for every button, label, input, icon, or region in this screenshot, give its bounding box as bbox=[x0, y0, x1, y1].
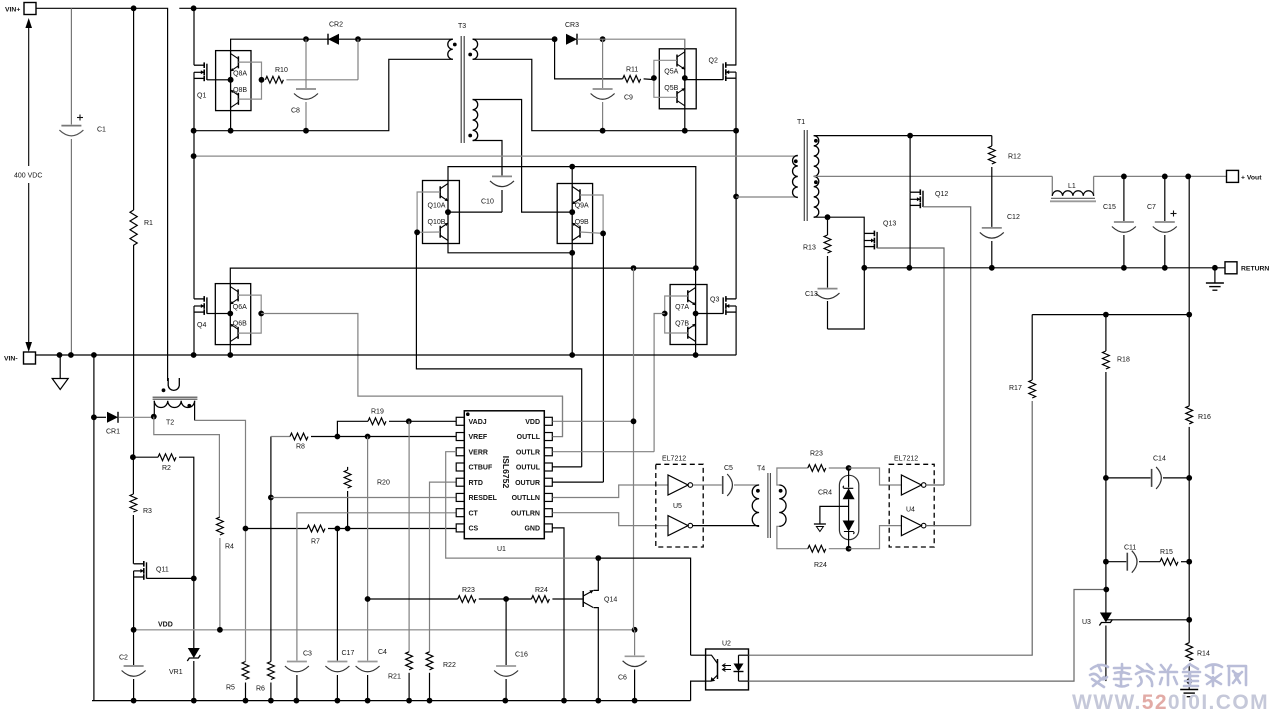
svg-text:R15: R15 bbox=[1160, 549, 1173, 556]
transistor Q2 (MOSFET) bbox=[709, 58, 737, 197]
zener diode VR1 bbox=[169, 578, 200, 700]
400 VDC dimension arrow bbox=[14, 18, 42, 352]
resistor R1 bbox=[130, 8, 153, 457]
svg-text:R10: R10 bbox=[275, 67, 288, 74]
optocoupler U2 bbox=[691, 641, 749, 701]
svg-text:R14: R14 bbox=[1197, 651, 1210, 658]
wire U5 lower output to T4 bbox=[693, 525, 760, 527]
svg-text:R24: R24 bbox=[814, 562, 827, 569]
svg-text:VADJ: VADJ bbox=[469, 419, 487, 426]
IC U1 ISL6752 bbox=[456, 411, 552, 553]
diode CR3 bbox=[565, 22, 579, 45]
wire VIN+ top rail left segment bbox=[36, 8, 168, 381]
svg-text:+ Vout: + Vout bbox=[1241, 174, 1262, 181]
node R21 tap on VADJ wire bbox=[406, 418, 412, 424]
wire T3 secondary-top to CR3 node bbox=[473, 38, 555, 40]
wire Q10 base line down to OUTUL route bbox=[416, 232, 581, 467]
svg-text:CS: CS bbox=[469, 526, 479, 533]
wire OUTUL pin route bbox=[552, 466, 581, 468]
wire CR4 top node to U4 input bbox=[849, 468, 902, 485]
resistor R19 and VADJ wire bbox=[337, 409, 456, 437]
wire Q1 bootstrap rail (bottom of Q8/C8) bbox=[194, 59, 453, 130]
node Q12 drain tap bbox=[907, 133, 913, 139]
IC U5 driver EL7212 (dashed) bbox=[656, 456, 703, 548]
wire left midpoint bus to T1 primary top bbox=[194, 155, 798, 157]
watermark Chinese characters bbox=[1090, 664, 1246, 687]
wire U2 LED cathode to U3 node bbox=[749, 590, 1107, 682]
wire Q14 emitter node to U2 bbox=[598, 558, 690, 655]
svg-text:L1: L1 bbox=[1068, 183, 1076, 190]
ground symbol near VIN- bbox=[52, 355, 68, 390]
node R23/R24/C16 junction bbox=[503, 596, 509, 602]
svg-text:CTBUF: CTBUF bbox=[469, 465, 493, 472]
transistor Q3 (MOSFET) bbox=[710, 197, 736, 356]
wire U3 cathode to R14 line bbox=[1106, 619, 1189, 621]
transistor pair Q9A/Q9B block bbox=[557, 184, 606, 244]
diode CR2 bbox=[328, 22, 343, 45]
capacitor C16 bbox=[494, 599, 528, 701]
node CR1 feed bbox=[93, 355, 95, 701]
svg-text:C9: C9 bbox=[624, 95, 633, 102]
svg-text:R11: R11 bbox=[626, 67, 638, 74]
transformer T3 bbox=[448, 23, 478, 143]
inductor L1 bbox=[1050, 183, 1096, 201]
svg-text:OUTUL: OUTUL bbox=[516, 465, 541, 472]
wire Q6 base line to OUTLL route bbox=[261, 314, 562, 437]
capacitor C14 bbox=[1106, 456, 1189, 489]
wire T2 right to R5 chain bbox=[195, 420, 246, 661]
wire CR4 bottom node to U4 input bbox=[849, 526, 902, 549]
wire T3 secondary-top lower terminal to Q5 rail bbox=[473, 59, 736, 130]
node bus268 VDD tap bbox=[631, 265, 637, 271]
transistor pair Q7A/Q7B block bbox=[662, 285, 707, 345]
svg-text:C7: C7 bbox=[1147, 204, 1156, 211]
svg-text:OUTLLN: OUTLLN bbox=[512, 495, 540, 502]
svg-text:R12: R12 bbox=[1008, 154, 1021, 161]
svg-text:Q6B: Q6B bbox=[233, 321, 247, 328]
capacitor C17 bbox=[325, 529, 354, 701]
diode CR1 bbox=[94, 412, 154, 436]
wire R18 line down to U3 bbox=[1105, 478, 1107, 613]
resistor R12 bbox=[988, 136, 1021, 227]
svg-text:R1: R1 bbox=[144, 220, 153, 227]
dual zener CR4 bbox=[818, 468, 859, 549]
wire +Vout rail from T1 center tap bbox=[814, 176, 1227, 196]
svg-text:C5: C5 bbox=[724, 465, 733, 472]
svg-text:VERR: VERR bbox=[469, 449, 488, 456]
svg-text:R3: R3 bbox=[143, 508, 152, 515]
svg-text:Q9B: Q9B bbox=[575, 219, 589, 226]
capacitor C3 and CT wire bbox=[285, 513, 456, 701]
wire U4 bottom output to Q12 gate line bbox=[926, 525, 971, 527]
wire OUTUR pin route bbox=[552, 481, 603, 483]
svg-text:C6: C6 bbox=[618, 675, 627, 682]
svg-text:T3: T3 bbox=[458, 23, 466, 30]
svg-text:R16: R16 bbox=[1198, 414, 1211, 421]
svg-text:C8: C8 bbox=[291, 108, 300, 115]
resistor R14 bbox=[1186, 643, 1210, 681]
wire Q5 emitter to rail bbox=[684, 109, 686, 131]
resistor R10 bbox=[265, 39, 358, 83]
wire Q8 collector rail to CR2/T3 (node A) bbox=[231, 39, 453, 50]
svg-text:CR2: CR2 bbox=[329, 22, 343, 29]
svg-text:R24: R24 bbox=[535, 587, 548, 594]
svg-text:EL7212: EL7212 bbox=[894, 456, 918, 463]
node U3 top bbox=[1103, 587, 1109, 593]
svg-text:VDD: VDD bbox=[525, 419, 540, 426]
svg-text:C4: C4 bbox=[378, 649, 387, 656]
node R7 tap on R5 line bbox=[243, 526, 249, 532]
IC U4 driver EL7212 (dashed) bbox=[889, 456, 934, 548]
wire Q9 emitter down to VIN- bus bbox=[571, 244, 573, 356]
wire Q10 emitter jog to Q9 emitter line bbox=[448, 244, 572, 253]
svg-text:RTD: RTD bbox=[469, 480, 483, 487]
wire Q8 emitter to rail bbox=[230, 111, 232, 131]
svg-text:R19: R19 bbox=[371, 409, 384, 416]
svg-text:R22: R22 bbox=[443, 662, 456, 669]
node Q9 collector tap bbox=[569, 164, 575, 170]
svg-text:C16: C16 bbox=[515, 652, 528, 659]
svg-text:C2: C2 bbox=[119, 655, 128, 662]
svg-text:Q1: Q1 bbox=[197, 93, 206, 100]
wire Q9 base line down to OUTUR pin bbox=[602, 233, 604, 482]
terminal VIN- bbox=[4, 352, 36, 364]
wire Q10 collector rail bbox=[448, 167, 696, 269]
wire Q7 base line to OUTLR pin route bbox=[654, 314, 665, 452]
resistor R24 (driver side) bbox=[808, 545, 849, 569]
svg-text:C15: C15 bbox=[1103, 204, 1116, 211]
svg-text:Q7A: Q7A bbox=[675, 304, 689, 311]
wire Q7 collector from bus bbox=[695, 268, 697, 284]
svg-text:U4: U4 bbox=[906, 507, 915, 514]
watermark url text bbox=[1072, 691, 1269, 712]
wire U2 LED anode to R17 bbox=[749, 408, 1033, 655]
node Q14 emitter junction bbox=[595, 555, 601, 561]
svg-text:C12: C12 bbox=[1007, 214, 1020, 221]
svg-text:R23: R23 bbox=[810, 451, 823, 458]
svg-text:Q4: Q4 bbox=[197, 322, 206, 329]
capacitor C15 bbox=[1103, 176, 1136, 267]
capacitor C8 bbox=[291, 39, 318, 131]
transistor Q13 (MOSFET) bbox=[864, 221, 896, 268]
terminal VIN+ bbox=[5, 3, 36, 15]
capacitor C5 coupling bbox=[693, 465, 760, 496]
capacitor C11 bbox=[1106, 545, 1160, 573]
resistor R15 bbox=[1160, 549, 1189, 565]
wire T1 secondary bottom to Q13/R13 bbox=[814, 217, 865, 233]
transistor pair Q10A/Q10B block bbox=[414, 181, 459, 244]
resistor R2 bbox=[133, 454, 194, 579]
wire bottom ground rail bbox=[92, 700, 691, 702]
wire C10 bottom to Q10 output bbox=[448, 211, 502, 213]
transistor pair Q6A/Q6B block bbox=[215, 284, 264, 345]
wire U4 top output to Q13 gate line bbox=[926, 484, 944, 486]
resistor R20 bbox=[344, 467, 390, 529]
resistor R6 bbox=[256, 437, 274, 701]
node C8 top junction bbox=[303, 36, 309, 42]
transistor pair Q8A/Q8B block bbox=[216, 51, 265, 111]
node CR4 bottom bbox=[846, 546, 852, 552]
node CR3 anode junction bbox=[552, 36, 558, 42]
wire OUTLLN pin route to U5 bbox=[552, 485, 668, 498]
wire VDD pin to VDD net bbox=[552, 420, 633, 422]
resistor R11 bbox=[623, 67, 655, 83]
svg-text:R21: R21 bbox=[388, 674, 401, 681]
svg-text:Q11: Q11 bbox=[156, 567, 169, 574]
resistor R5 bbox=[226, 662, 249, 701]
wire RESDEL bbox=[271, 497, 456, 499]
svg-text:OUTLL: OUTLL bbox=[517, 434, 541, 441]
svg-text:ISL6752: ISL6752 bbox=[501, 456, 511, 489]
svg-text:C11: C11 bbox=[1124, 545, 1136, 552]
svg-text:VDD: VDD bbox=[158, 622, 173, 629]
wire Q7 emitter to VIN- bus bbox=[695, 345, 697, 356]
wire VIN+ top rail right segment to Q2 drain bbox=[179, 8, 736, 65]
resistor R18 bbox=[1103, 315, 1130, 478]
transistor Q14 (NPN) bbox=[583, 558, 617, 701]
capacitor C6 bbox=[618, 630, 647, 701]
wire T2 left to R4 chain bbox=[154, 417, 220, 517]
transistor Q12 (MOSFET) bbox=[910, 136, 948, 268]
svg-text:Q6A: Q6A bbox=[233, 304, 247, 311]
svg-text:Q13: Q13 bbox=[883, 221, 896, 228]
wire Q9 collector up to rail bbox=[571, 167, 573, 184]
svg-text:400 VDC: 400 VDC bbox=[14, 172, 42, 179]
svg-text:C1: C1 bbox=[97, 127, 106, 134]
ground tap of CR4 bbox=[814, 506, 849, 531]
svg-text:T1: T1 bbox=[797, 119, 805, 126]
wire Q7 output to Q3 gate bbox=[696, 313, 724, 315]
svg-text:RESDEL: RESDEL bbox=[469, 495, 498, 502]
wire midpoint to T1 primary bottom bbox=[736, 196, 798, 198]
resistor R3 bbox=[130, 457, 152, 564]
wire VERR pin route bbox=[446, 452, 599, 558]
svg-text:R4: R4 bbox=[225, 544, 234, 551]
capacitor C9 bbox=[591, 39, 633, 131]
svg-text:Q8B: Q8B bbox=[233, 87, 247, 94]
svg-text:Q12: Q12 bbox=[935, 191, 948, 198]
svg-text:Q7B: Q7B bbox=[675, 321, 689, 328]
svg-text:VR1: VR1 bbox=[169, 669, 183, 676]
wire Q12 gate from U4 driver bbox=[923, 207, 971, 526]
wire T1 secondary top to R12 node bbox=[814, 135, 992, 137]
wire Q5 collector from CR3 node bbox=[684, 39, 686, 49]
wire T3 aux winding top to Q9 node bbox=[473, 100, 573, 213]
resistor R8 bbox=[271, 433, 456, 450]
svg-text:C13: C13 bbox=[805, 291, 818, 298]
wire OUTLRN pin route to U5 bbox=[552, 513, 668, 526]
svg-text:CR4: CR4 bbox=[818, 490, 832, 497]
svg-text:VIN+: VIN+ bbox=[5, 7, 20, 14]
svg-text:VREF: VREF bbox=[469, 434, 488, 441]
svg-text:Q8A: Q8A bbox=[233, 70, 247, 77]
capacitor C2 bbox=[119, 630, 146, 701]
wire feedback top rail bbox=[1032, 314, 1189, 316]
wire T4 secondary bottom loop with R24 bbox=[777, 526, 808, 548]
resistor R24 bbox=[506, 587, 583, 602]
svg-text:R7: R7 bbox=[311, 539, 320, 546]
node R13 tap bbox=[825, 214, 831, 220]
svg-text:EL7212: EL7212 bbox=[662, 456, 686, 463]
wire OUTLL pin route bbox=[552, 396, 562, 437]
node VIN+ rail junctions bbox=[131, 5, 137, 11]
svg-text:GND: GND bbox=[524, 526, 540, 533]
svg-text:T2: T2 bbox=[166, 420, 174, 427]
svg-text:U1: U1 bbox=[497, 546, 506, 553]
wire CR3 to Q5 collector feed bbox=[577, 39, 685, 49]
svg-text:R20: R20 bbox=[377, 480, 390, 487]
svg-text:Q10A: Q10A bbox=[428, 203, 446, 210]
capacitor C7 (polarized) bbox=[1147, 176, 1177, 267]
svg-text:Q5A: Q5A bbox=[664, 69, 678, 76]
wire GND pin route bbox=[552, 528, 564, 701]
svg-text:Q2: Q2 bbox=[709, 58, 718, 65]
svg-text:C14: C14 bbox=[1153, 456, 1166, 463]
svg-text:U3: U3 bbox=[1082, 619, 1091, 626]
svg-text:OUTUR: OUTUR bbox=[515, 480, 540, 487]
resistor R21 bbox=[388, 421, 413, 700]
wire RETURN rail bbox=[864, 267, 1226, 269]
node C9 top junction bbox=[600, 36, 606, 42]
svg-text:R18: R18 bbox=[1117, 357, 1130, 364]
capacitor C1 bbox=[59, 8, 106, 355]
wire VDD rail bbox=[134, 622, 635, 630]
svg-text:Q5B: Q5B bbox=[664, 85, 678, 92]
wire T3 aux winding bottom to C10 bbox=[473, 141, 502, 171]
svg-text:RETURN: RETURN bbox=[1241, 266, 1269, 273]
svg-text:VIN-: VIN- bbox=[4, 356, 18, 363]
capacitor C13 bbox=[805, 268, 864, 329]
resistor R4 bbox=[217, 517, 235, 630]
capacitor C4 and VREF line bbox=[356, 437, 387, 701]
capacitor C12 bbox=[980, 214, 1020, 268]
transformer T1 bbox=[793, 119, 819, 221]
transistor Q1 (MOSFET) bbox=[194, 8, 216, 299]
resistor R13 bbox=[803, 217, 831, 287]
wire Q5 output to Q2 gate bbox=[685, 79, 723, 81]
svg-text:CT: CT bbox=[469, 510, 479, 517]
terminal RETURN bbox=[1225, 262, 1269, 274]
node right bridge midpoint bbox=[733, 194, 739, 200]
transistor Q4 (MOSFET) bbox=[194, 296, 215, 355]
svg-text:OUTLR: OUTLR bbox=[516, 449, 540, 456]
svg-text:U2: U2 bbox=[722, 641, 731, 648]
node RESDEL tap on R6 line bbox=[268, 495, 274, 501]
svg-text:U5: U5 bbox=[673, 503, 682, 510]
transistor Q11 (MOSFET) bbox=[134, 561, 194, 630]
resistor R23 bbox=[368, 587, 507, 602]
node T2 secondary left junction bbox=[151, 414, 157, 420]
svg-text:OUTLRN: OUTLRN bbox=[511, 510, 540, 517]
node Q11 gate / VR1 junction bbox=[191, 576, 197, 582]
svg-text:R6: R6 bbox=[256, 686, 265, 693]
node CR4 top bbox=[846, 465, 852, 471]
svg-text:R5: R5 bbox=[226, 685, 235, 692]
svg-text:R8: R8 bbox=[296, 444, 305, 451]
svg-text:Q14: Q14 bbox=[604, 597, 617, 604]
svg-text:C3: C3 bbox=[303, 651, 312, 658]
transformer T4 bbox=[752, 466, 786, 539]
svg-text:CR3: CR3 bbox=[565, 22, 579, 29]
wire T4 secondary top loop with R23 bbox=[777, 468, 808, 485]
resistor R17 bbox=[1009, 315, 1036, 408]
svg-text:C10: C10 bbox=[481, 199, 494, 206]
wire Q1 gate to Q8 output node bbox=[216, 79, 231, 81]
node VREF junctions bbox=[335, 434, 341, 440]
resistor R16 bbox=[1186, 176, 1211, 478]
svg-text:R17: R17 bbox=[1009, 385, 1022, 392]
ground symbol under R14 bbox=[1180, 681, 1198, 697]
wire VIN- bus bbox=[36, 354, 737, 356]
svg-text:Q9A: Q9A bbox=[575, 203, 589, 210]
transistor pair Q5A/Q5B block bbox=[651, 49, 696, 109]
ground symbol at RETURN bbox=[1206, 268, 1224, 290]
wire VDD vertical net bbox=[633, 268, 635, 630]
node R23 tap on VREF line bbox=[365, 596, 371, 602]
svg-text:C17: C17 bbox=[342, 650, 355, 657]
resistor R7 and CS wire bbox=[246, 525, 457, 545]
wire CR3 node down to R11 bbox=[555, 39, 623, 79]
svg-text:R13: R13 bbox=[803, 245, 816, 252]
svg-text:Q10B: Q10B bbox=[428, 219, 446, 226]
svg-text:T4: T4 bbox=[757, 466, 765, 473]
wire Q6 emitter to VIN- bus bbox=[229, 345, 231, 355]
resistor R22 and RTD wire bbox=[426, 482, 456, 700]
wire Q6 collector to bus 268 bbox=[230, 268, 696, 284]
svg-text:CR1: CR1 bbox=[106, 429, 120, 436]
transformer T2 bbox=[153, 378, 198, 427]
wire Q13 gate from U4 driver bbox=[877, 248, 944, 485]
svg-text:R2: R2 bbox=[162, 465, 171, 472]
wire OUTLR pin route bbox=[552, 451, 654, 453]
svg-text:R23: R23 bbox=[462, 587, 475, 594]
resistor R23 (driver side) bbox=[808, 451, 849, 472]
capacitor C10 bbox=[481, 170, 514, 212]
wire Q4 gate to Q6 output bbox=[215, 313, 230, 315]
node CR2 cathode junction bbox=[355, 36, 361, 42]
svg-text:WWW.520I0I.COM: WWW.520I0I.COM bbox=[1072, 691, 1269, 712]
wire R16 segment C14 to bottom bbox=[1188, 478, 1190, 643]
node bus268 Q7 tap bbox=[693, 265, 699, 271]
svg-text:Q3: Q3 bbox=[710, 297, 719, 304]
terminal +Vout bbox=[1227, 170, 1263, 182]
zener diode U3 (shunt reference) bbox=[1082, 613, 1112, 682]
